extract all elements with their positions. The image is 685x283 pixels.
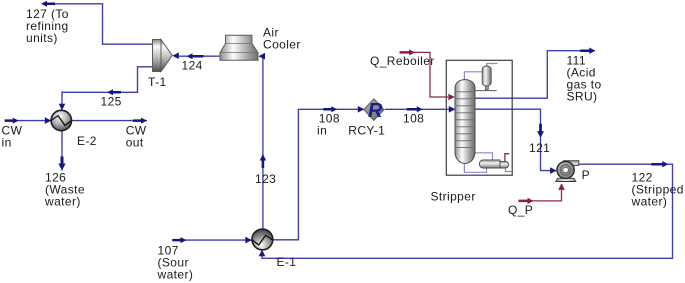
- svg-text:units): units): [26, 31, 58, 45]
- internal energy pipe to reboiler (maroon hook): [505, 154, 509, 162]
- stream 121 direction arrow: [537, 124, 544, 138]
- tank T-1 cone: [161, 40, 172, 72]
- stream 122 wire (pump discharge around to E-1): [262, 164, 673, 258]
- column internal pipe: bottom to reboiler: [464, 163, 486, 172]
- stream CW out terminal arrow: [133, 118, 147, 124]
- svg-text:124: 124: [182, 59, 203, 73]
- energy stream Q_Reboiler arrowhead at column: [448, 94, 455, 101]
- stream 121 arrowhead at pump: [550, 167, 557, 174]
- column internal pipe: top to condenser: [464, 72, 482, 81]
- svg-text:T-1: T-1: [148, 75, 167, 89]
- stream 125 wire (T-1 bottom outlet to E-2): [62, 67, 153, 110]
- svg-text:121: 121: [529, 141, 550, 155]
- stream 122 arrowhead at E-1: [259, 250, 266, 257]
- svg-text:125: 125: [101, 95, 122, 109]
- svg-text:R: R: [368, 100, 383, 122]
- svg-text:in: in: [317, 123, 327, 137]
- stream 108 arrowhead at column: [449, 106, 456, 113]
- stream 124 wire (Air Cooler to T-1): [179, 55, 220, 57]
- svg-text:Q_P: Q_P: [508, 203, 533, 217]
- stream 107 arrowhead at E-1: [245, 237, 252, 244]
- stream 125 arrowhead at E-2: [59, 104, 66, 111]
- column internal pipe: condenser top outlet: [487, 64, 498, 67]
- gray shelf line (condenser support): [475, 90, 497, 92]
- pump P: [556, 161, 579, 182]
- stream 123 wire (E-1 to Air Cooler): [260, 56, 263, 229]
- stream 125 direction arrow: [107, 89, 121, 95]
- column internal pipe: reboiler vapour return: [475, 153, 493, 160]
- stream 111 terminal arrow: [580, 48, 595, 54]
- stream 122 direction arrow: [651, 161, 668, 167]
- energy stream Q_P start arrow: [519, 198, 534, 204]
- svg-text:P: P: [582, 168, 590, 182]
- stream 108-in arrowhead at RCY-1: [358, 106, 365, 113]
- stream 124 direction arrow: [187, 53, 204, 59]
- svg-text:Cooler: Cooler: [263, 37, 301, 51]
- stripper sub-flowsheet box: [446, 60, 512, 175]
- column internal pipe: reboiler liquid outlet: [506, 168, 512, 172]
- stream 107 start arrow: [173, 237, 187, 243]
- stream CW out wire: [72, 120, 148, 122]
- svg-text:Q_Reboiler: Q_Reboiler: [370, 54, 435, 68]
- svg-text:in: in: [2, 136, 12, 150]
- stream 111 wire (stripper overhead to SRU): [475, 51, 595, 98]
- heat exchanger E-2: [51, 110, 71, 130]
- stream 108-in wire (E-1 to RCY-1): [273, 109, 365, 240]
- tank T-1 cylinder: [153, 40, 162, 72]
- energy stream Q_Reboiler start arrow: [400, 49, 416, 55]
- svg-text:108: 108: [403, 111, 424, 125]
- stream 121 wire (stripper bottoms to pump): [475, 109, 556, 170]
- heat exchanger E-1: [252, 229, 273, 250]
- svg-text:E-1: E-1: [277, 255, 297, 269]
- air cooler body: [220, 35, 258, 60]
- svg-text:out: out: [126, 136, 144, 150]
- svg-text:water): water): [157, 268, 194, 282]
- recycle block RCY-1: [364, 99, 384, 122]
- svg-text:SRU): SRU): [567, 90, 598, 104]
- energy stream Q_P wire: [525, 184, 562, 201]
- stream 126 wire (E-2 to waste water): [61, 131, 63, 171]
- stream 127 wire (T-1 top outlet to refining units): [53, 4, 153, 44]
- svg-text:E-2: E-2: [77, 134, 97, 148]
- stream CW in arrowhead at E-2: [45, 117, 52, 124]
- stream CW in start arrow: [5, 118, 19, 124]
- stream 107 wire (sour water to E-1): [172, 239, 252, 241]
- reboiler vessel: [479, 160, 508, 168]
- stream 123 direction arrow: [260, 154, 266, 168]
- stream 126 terminal arrow: [58, 157, 65, 171]
- stream CW in wire: [5, 120, 51, 122]
- stream 123 arrowhead at Air Cooler: [259, 53, 266, 60]
- condenser vessel: [482, 66, 491, 90]
- svg-text:Stripper: Stripper: [431, 190, 476, 204]
- stream 108 wire (RCY-1 to Stripper): [385, 108, 455, 110]
- stripper column vessel: [455, 80, 475, 164]
- svg-text:123: 123: [255, 172, 276, 186]
- energy stream Q_Reboiler wire: [406, 52, 448, 97]
- svg-text:RCY-1: RCY-1: [348, 123, 385, 137]
- svg-text:water): water): [44, 195, 81, 209]
- stream 127 terminal arrow: [41, 1, 55, 7]
- svg-text:water): water): [631, 194, 668, 208]
- energy stream Q_P arrowhead at pump: [558, 183, 565, 190]
- stream 108-in direction arrow: [323, 106, 337, 112]
- stream 124 arrowhead at T-1: [172, 52, 179, 59]
- stream 108 direction arrow: [407, 106, 423, 112]
